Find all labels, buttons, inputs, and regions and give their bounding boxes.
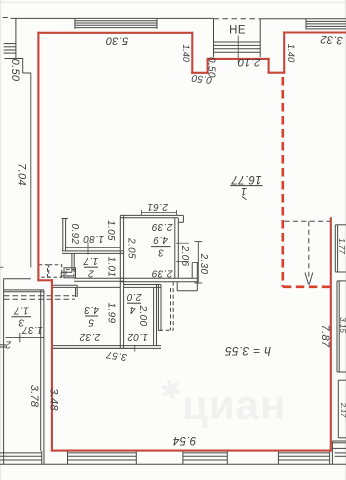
rooms 4-5 bottom wall bbox=[53, 345, 161, 347]
svg-text:7.04: 7.04 bbox=[16, 163, 28, 186]
red jog bbox=[38, 279, 52, 281]
room 1 fraction line bbox=[230, 185, 262, 187]
dim ticks 2.06 bbox=[176, 242, 189, 244]
watermark logo bbox=[157, 373, 185, 407]
window band 4 bbox=[278, 452, 329, 454]
neighbour room right wall bbox=[40, 290, 42, 451]
shaft box B bbox=[49, 265, 62, 277]
svg-text:1.05: 1.05 bbox=[105, 220, 116, 241]
top-left edge tick bbox=[3, 17, 8, 19]
dim line 2.30 bbox=[197, 242, 199, 283]
svg-text:циан: циан bbox=[182, 381, 286, 428]
dim line 3.57 bbox=[53, 347, 135, 349]
window top-left band bbox=[75, 20, 157, 22]
room 2 top wall bbox=[62, 250, 124, 252]
window band 2 bbox=[68, 452, 137, 454]
removed wall dashed pair bbox=[4, 295, 75, 297]
svg-text:2.17: 2.17 bbox=[339, 402, 346, 418]
svg-text:16.77: 16.77 bbox=[231, 173, 262, 185]
room 3 bottom wall bbox=[120, 277, 197, 279]
room 3 right wall bbox=[174, 218, 176, 278]
cluster divider wall bbox=[119, 215, 121, 348]
bottom-right corner block bbox=[331, 441, 333, 464]
room 5 left step bbox=[75, 287, 77, 297]
svg-text:HE: HE bbox=[229, 25, 246, 37]
niche 0.92 left wall bbox=[62, 219, 64, 251]
red niche step up bbox=[207, 59, 209, 73]
svg-text:1.80: 1.80 bbox=[83, 233, 104, 244]
red wall 2.10 bbox=[208, 58, 269, 60]
shaft box C bbox=[64, 268, 76, 278]
svg-text:1.01: 1.01 bbox=[106, 256, 117, 277]
red top-left wall bbox=[38, 32, 192, 34]
niche right jamb bbox=[259, 19, 261, 57]
svg-text:2.00: 2.00 bbox=[137, 305, 148, 327]
neighbour bottom wall piece bbox=[0, 344, 6, 346]
red step horizontal right bbox=[269, 72, 285, 74]
svg-text:1.7: 1.7 bbox=[83, 255, 98, 266]
niche left jamb bbox=[213, 18, 215, 57]
wall stub right of room 3 bbox=[191, 263, 193, 279]
dim line 1.37 bbox=[6, 336, 45, 338]
neighbour fraction line bbox=[12, 316, 32, 318]
left outer wall top bbox=[15, 18, 17, 58]
red top-right wall bbox=[284, 31, 346, 33]
dim line niche bottom bbox=[66, 247, 121, 249]
svg-text:0.50: 0.50 bbox=[9, 59, 21, 82]
arrow head bbox=[305, 273, 309, 285]
red step down right bbox=[268, 59, 270, 73]
svg-text:9.54: 9.54 bbox=[173, 434, 197, 446]
svg-text:2.0: 2.0 bbox=[126, 291, 142, 302]
red dashed opening vertical bbox=[281, 77, 284, 287]
room 2 bottom wall bbox=[74, 277, 123, 279]
svg-text:2.06: 2.06 bbox=[179, 245, 190, 267]
svg-text:4: 4 bbox=[129, 304, 135, 315]
window band 1 bbox=[0, 452, 42, 454]
left outer wall bottom bbox=[3, 279, 5, 465]
svg-text:2.05: 2.05 bbox=[125, 237, 136, 259]
window top-right band bbox=[306, 20, 346, 22]
red niche bottom bbox=[192, 72, 207, 74]
svg-text:5.30: 5.30 bbox=[105, 34, 128, 46]
svg-text:3.48: 3.48 bbox=[48, 388, 60, 411]
room 3 fraction line bbox=[151, 246, 171, 248]
room 3 top-right notch bbox=[182, 215, 184, 222]
svg-text:1.37: 1.37 bbox=[22, 324, 43, 335]
svg-text:1.40: 1.40 bbox=[181, 44, 191, 62]
svg-text:3.15: 3.15 bbox=[338, 317, 346, 333]
closet dashed outline bbox=[170, 288, 172, 330]
room 2 left wall bbox=[71, 253, 73, 272]
svg-text:1.77: 1.77 bbox=[337, 238, 346, 254]
svg-text:5: 5 bbox=[88, 317, 94, 328]
svg-text:2.10: 2.10 bbox=[237, 56, 261, 68]
dim line 2.61 bbox=[142, 212, 177, 214]
left edge tick bbox=[0, 266, 4, 268]
svg-text:0.92: 0.92 bbox=[69, 224, 80, 245]
neighbour room top wall bbox=[4, 289, 44, 291]
svg-text:2.32: 2.32 bbox=[79, 331, 101, 342]
dim tick bbox=[87, 243, 89, 255]
right box 3 bbox=[337, 380, 339, 438]
room 4 fraction line bbox=[127, 302, 141, 304]
left wall window ticks bbox=[4, 43, 16, 45]
room 5 fraction line bbox=[85, 315, 98, 317]
red left wall upper bbox=[37, 33, 39, 280]
top outer wall solid right part bbox=[260, 18, 346, 20]
entry dashed line horizontal bbox=[285, 220, 331, 222]
room 3 top wall bbox=[120, 214, 183, 216]
svg-text:2: 2 bbox=[88, 268, 95, 279]
svg-text:h = 3.55: h = 3.55 bbox=[225, 344, 271, 358]
svg-text:1.40: 1.40 bbox=[285, 44, 296, 63]
red dashed opening horizontal bbox=[283, 285, 331, 288]
red right-top vertical bbox=[283, 33, 285, 73]
red niche left bbox=[191, 33, 193, 73]
HE leader line bbox=[237, 36, 239, 64]
room 2 notch bbox=[61, 271, 72, 273]
entry dashed line vertical bbox=[308, 221, 310, 278]
svg-text:2.39: 2.39 bbox=[151, 268, 173, 279]
svg-text:2.61: 2.61 bbox=[147, 201, 169, 212]
shaft box A bbox=[39, 265, 48, 277]
right box 1 bbox=[334, 225, 336, 272]
red bottom wall bbox=[52, 450, 331, 452]
svg-text:4.9: 4.9 bbox=[153, 234, 168, 245]
window band 3 bbox=[183, 452, 227, 454]
7.04 wall line bbox=[30, 73, 32, 268]
shaft box below room 3 bbox=[176, 282, 178, 291]
closet wall right of room 4 bbox=[157, 285, 159, 332]
svg-text:1: 1 bbox=[241, 185, 247, 197]
svg-text:2.30: 2.30 bbox=[198, 253, 209, 275]
room 4 right wall bbox=[153, 287, 155, 345]
svg-text:1.7: 1.7 bbox=[14, 305, 29, 316]
svg-text:7.87: 7.87 bbox=[319, 325, 331, 348]
red left wall lower bbox=[51, 280, 53, 450]
svg-text:2: 2 bbox=[5, 338, 12, 349]
top outer wall solid left part bbox=[11, 17, 214, 19]
svg-text:1.99: 1.99 bbox=[106, 303, 117, 324]
right box 2 bbox=[336, 281, 338, 372]
room 5 top wall bbox=[53, 284, 77, 286]
top outer wall dashed part over niche bbox=[214, 18, 261, 20]
room 2 fraction line bbox=[84, 266, 98, 268]
svg-text:4.3: 4.3 bbox=[84, 304, 99, 315]
room 1 leader tick bbox=[242, 197, 247, 200]
left wall 0.50 step bbox=[4, 58, 23, 60]
red right wall bbox=[330, 218, 332, 450]
svg-text:3: 3 bbox=[158, 247, 164, 258]
bottom outer line bbox=[0, 463, 346, 465]
svg-text:1.02: 1.02 bbox=[127, 331, 148, 342]
wall to 7.04 line bbox=[4, 278, 31, 280]
shaft boxes dashed bbox=[39, 265, 74, 277]
room 4 top wall bbox=[124, 284, 161, 286]
niche window band bbox=[214, 41, 261, 43]
svg-text:3.32: 3.32 bbox=[320, 33, 343, 46]
shaft box C inner bbox=[66, 270, 74, 277]
svg-text:2.39: 2.39 bbox=[151, 221, 173, 232]
svg-text:3.78: 3.78 bbox=[28, 385, 40, 408]
